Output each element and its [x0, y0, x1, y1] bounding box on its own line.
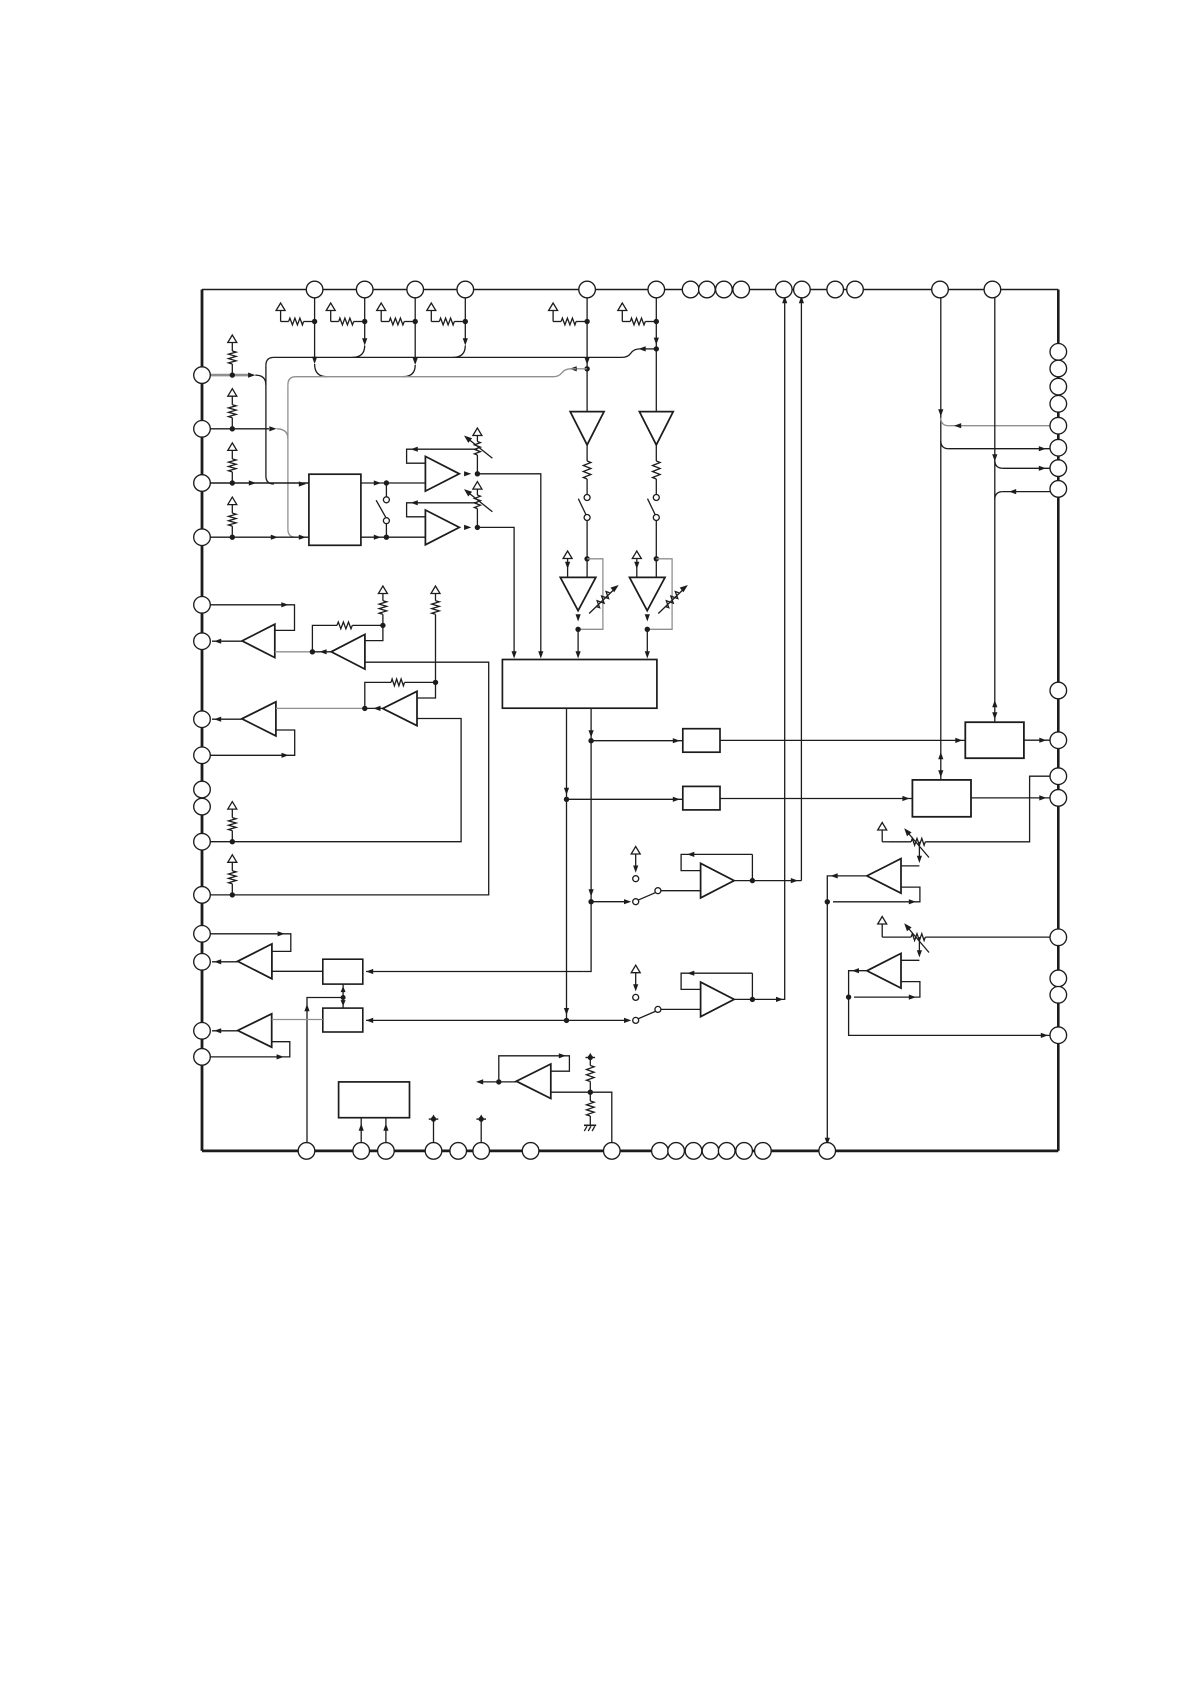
arrow on U14 feedback — [687, 852, 694, 857]
op-amp VCA (down) chain1 — [560, 577, 596, 610]
wire U14 output — [734, 880, 752, 882]
pin L5 — [194, 597, 211, 614]
wire U19 output stub — [365, 707, 383, 709]
arrow on U1 output 1 — [374, 480, 381, 485]
arrow into U8 — [902, 796, 909, 801]
arrow on pin T5 lead — [585, 358, 590, 365]
arrow into selector (from U2) — [538, 651, 543, 658]
op-amp U23 — [516, 1064, 551, 1099]
op-amp U16 — [242, 624, 275, 657]
terminal marker (divider top) — [586, 1057, 596, 1059]
node U14 output — [750, 878, 755, 883]
arrow on T16 vertical (upper) — [992, 454, 997, 461]
IC outline (bottom edge) — [202, 1150, 1058, 1153]
power supply arrow VR3 — [878, 823, 887, 831]
arrow chain1 VCA output — [576, 614, 581, 621]
pin R5 — [1050, 417, 1067, 434]
power supply arrow + resistor R5 at top pin — [549, 303, 558, 311]
pin R2 — [1050, 360, 1067, 377]
black bus elbow down — [266, 357, 274, 365]
pin L7 — [194, 711, 211, 728]
pin L15 — [194, 1023, 211, 1040]
wire pin T6 vertical — [655, 290, 657, 412]
node pin T6 / black bus junction — [654, 346, 659, 351]
wire U17 output — [312, 651, 331, 653]
black bus elbow into block input — [266, 476, 274, 484]
arrow on pin T6 lead — [654, 338, 659, 345]
wire U18 output to pin L7 — [212, 718, 242, 720]
arrow into black bus (pin T4) — [463, 338, 468, 345]
switch U14 mute contact — [633, 876, 639, 882]
wire pin T1 vertical — [314, 290, 316, 363]
box U8 — [912, 780, 971, 817]
node U1 output 2 — [384, 535, 389, 540]
wire U8 output to pin R12 — [971, 797, 1058, 799]
pin T12 — [794, 281, 811, 298]
node U4 output 1 / box U5 tap — [588, 738, 593, 743]
elbow L1 wire into vertical — [255, 375, 266, 385]
pin B11 — [685, 1143, 702, 1160]
pin T16 — [984, 281, 1001, 298]
pin B4 — [425, 1143, 442, 1160]
arrow into U22 (lead2) — [383, 1124, 388, 1131]
wire U22 lead 1 (pin B2) — [360, 1118, 362, 1151]
arrow into U22 (lead1) — [359, 1124, 364, 1131]
block U4 (selector) — [502, 660, 657, 709]
wire to box U5 — [591, 740, 683, 742]
pin R6 — [1050, 439, 1067, 456]
U13 upper input step — [901, 959, 919, 961]
pin B10 — [668, 1143, 685, 1160]
pin B12 — [702, 1143, 719, 1160]
wire chain2 switch to node — [655, 521, 657, 578]
pin B1 — [298, 1143, 315, 1160]
wire U13 output — [849, 971, 1059, 1036]
box U11 — [323, 1008, 363, 1032]
node U4 output 2 / mute switch 2 tap — [564, 1018, 569, 1023]
resistor R13 branch (pin L12) — [228, 855, 237, 863]
wire elbow pin T2 to black bus — [352, 346, 364, 358]
pin T8 — [699, 281, 716, 298]
node L2 wire / resistor junction — [230, 426, 235, 431]
pin B6 — [473, 1143, 490, 1160]
wire U16 output to pin L6 — [212, 640, 242, 642]
arrow up on T16 vertical — [992, 700, 997, 707]
arrow on U4 output 1 (lower) — [589, 889, 594, 896]
arrow into U8 top — [938, 770, 943, 777]
wire pin T2 vertical — [364, 290, 366, 344]
variable resistor VR4 — [878, 917, 887, 925]
wire U23 output — [478, 1081, 516, 1083]
pin R15 — [1050, 987, 1067, 1004]
resistor R17 (divider upper) — [587, 1066, 595, 1082]
VR4 lead into U13 — [918, 937, 920, 954]
arrow into box U11 — [366, 1018, 373, 1023]
resistor R16 branch (pin L11) — [228, 802, 237, 810]
wire U4 output 2 vertical (lower part) — [566, 799, 568, 1020]
wire U7 output to pin R10 — [1024, 739, 1058, 741]
pin R4 — [1050, 396, 1067, 413]
power supply arrow + resistor R1 at top pin — [276, 303, 285, 311]
pin T9 — [716, 281, 733, 298]
wire chain2 VCA output to selector — [646, 629, 648, 652]
arrow L1 wire — [248, 373, 255, 378]
op-amp U3 — [425, 510, 459, 545]
pin R16 — [1050, 1027, 1067, 1044]
wire U17 feedback into input — [365, 625, 383, 640]
branch to pin R7 — [995, 460, 1003, 468]
pin L16 — [194, 1049, 211, 1066]
node chain2 VCA input — [654, 556, 659, 561]
node chain2 VCA output — [645, 627, 650, 632]
box U22 (bias generator) — [339, 1082, 410, 1118]
node on pin lead (top pin 2) — [362, 319, 367, 324]
wire U21 output to pin L15 — [212, 1030, 238, 1032]
op-amp U14 — [701, 863, 735, 898]
variable resistor chain2 — [665, 592, 679, 608]
arrow down into U11 — [341, 1000, 346, 1006]
arrow into pin R10 — [1039, 738, 1046, 743]
node U15 output — [750, 997, 755, 1002]
wire chain2 buffer to resistor — [655, 445, 657, 461]
wire U2 output to selector — [477, 474, 540, 653]
VR2 adjustment arrow — [467, 491, 493, 512]
switch chain2 — [653, 495, 659, 501]
op-amp U15 — [701, 982, 735, 1017]
node U3 output — [475, 525, 480, 530]
arrow into pin T11 — [782, 296, 787, 303]
wire vertical to pin T12 — [800, 290, 802, 881]
branch to pin R6 — [941, 441, 949, 449]
pin R10 — [1050, 732, 1067, 749]
pin T11 — [776, 281, 793, 298]
feedback bracket U23 — [499, 1056, 570, 1082]
wire U19 output to U18 — [276, 707, 365, 709]
arrow into block (input 1) — [299, 481, 306, 486]
pin B15 — [755, 1143, 772, 1160]
gray bracket chain1 — [578, 559, 603, 630]
arrow U14 input — [624, 899, 631, 904]
wire U6 to U8 — [720, 798, 912, 800]
arrow on T15 vertical (upper) — [938, 409, 943, 416]
wire U3 output to selector — [477, 527, 514, 652]
arrow on U14 output — [791, 878, 798, 883]
wire chain1 VCA output to selector — [577, 629, 579, 652]
arrow on U17 output — [319, 649, 326, 654]
black bus vertical drop — [265, 365, 267, 476]
IC outline (right edge) — [1057, 290, 1060, 1151]
pin L10 — [194, 798, 211, 815]
arrow into U7 — [955, 738, 962, 743]
node U10/U11 junction — [341, 995, 346, 1000]
pin L9 — [194, 781, 211, 798]
wire U16 lower input — [275, 651, 313, 653]
pin R7 — [1050, 460, 1067, 477]
op-amp U17 — [331, 634, 365, 669]
wire U15 input — [567, 1019, 630, 1021]
arrow into selector (chain2) — [645, 651, 650, 658]
variable resistor VR1 (U2 gain) — [473, 428, 482, 436]
resistor R7 branch above L1 wire — [228, 335, 237, 343]
node pin T5 / gray bus junction — [584, 366, 589, 371]
op-amp buffer (down) chain2 — [639, 412, 673, 445]
node on pin lead (top pin 5) — [584, 319, 589, 324]
arrow on U15 feedback — [687, 971, 694, 976]
node chain1 VCA input — [584, 556, 589, 561]
IC outline (left edge) — [201, 290, 204, 1151]
block U1 (input matrix) — [309, 474, 361, 545]
wire U15 output run — [752, 290, 784, 1000]
terminal marker pin B6 — [476, 1118, 486, 1120]
wire pin T4 vertical — [464, 290, 466, 344]
arrow into pin R12 — [1039, 795, 1046, 800]
pin T15 — [932, 281, 949, 298]
op-amp U12 — [867, 859, 901, 894]
pin L8 — [194, 747, 211, 764]
node U17 feedback junction — [380, 623, 385, 628]
variable resistor chain1 — [596, 592, 610, 608]
pin R11 — [1050, 768, 1067, 785]
arrow up on T15 vertical — [938, 752, 943, 759]
power supply arrow chain1 VCA — [563, 551, 572, 559]
pin R1 — [1050, 344, 1067, 361]
arrow into box U6 — [673, 797, 680, 802]
resistor R10 branch above L4 wire — [228, 497, 237, 505]
wire chain1 resistor to switch — [586, 479, 588, 495]
resistor R15 + supply (U19 bias) — [431, 586, 440, 594]
pin L13 — [194, 926, 211, 943]
pin T7 — [682, 281, 699, 298]
pin T6 — [648, 281, 665, 298]
pin B3 — [378, 1143, 395, 1160]
node U4 output 1 / mute switch tap — [588, 899, 593, 904]
left pin L4 input wire — [202, 536, 309, 538]
gray bus wire (right end with arrow) — [576, 368, 587, 370]
wire U4 output 1 vertical (upper part) — [590, 708, 592, 741]
U12 lower input step — [833, 887, 920, 902]
elbow L2 wire into vertical — [277, 429, 288, 439]
pin B9 — [652, 1143, 669, 1160]
pin T10 — [733, 281, 750, 298]
arrow into gray bus (pin T3) — [413, 358, 418, 365]
wire U22 lead 2 (pin B3) — [385, 1118, 387, 1151]
wire U12 output — [827, 876, 867, 1151]
arrow on U2 feedback — [411, 447, 418, 452]
power supply arrow + resistor R3 at top pin — [377, 303, 386, 311]
pin T2 — [356, 281, 373, 298]
op-amp U18 — [242, 702, 276, 736]
feedback vertical U14 — [751, 854, 753, 880]
node divider tap — [588, 1090, 593, 1095]
arrow on U3 feedback — [411, 500, 418, 505]
wire pin T3 vertical — [414, 290, 416, 364]
wire U19 lower input (long) — [202, 719, 461, 842]
pin L6 — [194, 633, 211, 650]
switch U15 — [633, 1017, 639, 1023]
branch from pin R8 — [1003, 491, 1059, 493]
gray bus vertical drop — [287, 385, 289, 530]
U13 lower input step — [854, 982, 920, 998]
node U13 lower input / output line — [846, 994, 851, 999]
VR3 lead into U12 — [918, 842, 920, 860]
gray bus elbow down — [288, 377, 296, 385]
feedback vertical U15 — [751, 973, 753, 999]
feedback wire U3 — [407, 503, 478, 517]
arrow on U1 output 2 — [374, 535, 381, 540]
node L1 wire / resistor junction — [230, 372, 235, 377]
node U1 output 1 — [384, 480, 389, 485]
VR3 adjustment arrow — [906, 831, 929, 858]
IC outline (top edge) — [202, 289, 1058, 291]
box U10 — [323, 959, 363, 984]
wire junction to pin B1 — [307, 998, 343, 1151]
pin T13 — [827, 281, 844, 298]
wire between U10 and U11 — [342, 984, 344, 1008]
wire pin L5 to U16 (upper input) — [202, 605, 295, 631]
variable resistor VR3 — [911, 838, 925, 845]
wire chain1 buffer to resistor — [586, 445, 588, 461]
pin B8 — [604, 1143, 621, 1160]
pin B7 — [522, 1143, 539, 1160]
node L11 wire / resistor junction — [230, 839, 235, 844]
box U7 — [965, 722, 1024, 758]
arrow into block (input 2) — [299, 535, 306, 540]
wire U14 output run — [752, 880, 801, 882]
arrow chain2 VCA output — [645, 614, 650, 621]
resistor chain2 series — [653, 461, 661, 479]
wire chain2 resistor to switch — [655, 479, 657, 495]
pin B13 — [718, 1143, 735, 1160]
pin B5 — [450, 1143, 467, 1160]
node U12 lower input / output line — [825, 899, 830, 904]
op-amp U19 — [383, 691, 417, 725]
wire U17 lower input (long) — [202, 662, 489, 895]
pin L11 — [194, 833, 211, 850]
arrow on U4 output 2 — [564, 788, 569, 795]
wire pin T15 vertical — [940, 290, 942, 780]
pin B14 — [736, 1143, 753, 1160]
node on pin lead (top pin 1) — [312, 319, 317, 324]
variable resistor VR2 (U3 gain) — [473, 482, 482, 490]
pin T5 — [579, 281, 596, 298]
pin R8 — [1050, 481, 1067, 498]
node L12 wire / resistor junction — [230, 892, 235, 897]
wire U4 output 1 vertical (middle part) — [590, 741, 592, 902]
wire elbow pin T3 to gray bus — [403, 365, 415, 377]
op-amp U13 — [867, 953, 901, 988]
wire U11 to U21 (upper input) — [272, 1019, 323, 1021]
arrow on U4 output 2 (lower) — [564, 1008, 569, 1015]
VR1 adjustment arrow — [467, 438, 493, 459]
wire pin T16 vertical — [994, 290, 996, 723]
black bus wire (horizontal run) — [274, 356, 620, 358]
feedback bracket U15 — [681, 973, 752, 989]
arrow on U23 output (floating) — [476, 1079, 483, 1084]
gray bus elbow into block input — [288, 529, 296, 537]
resistor R8 branch above L2 wire — [228, 389, 237, 397]
arrow up into U10 — [341, 986, 346, 992]
pin T3 — [407, 281, 424, 298]
node on pin lead (top pin 4) — [463, 319, 468, 324]
pin L2 — [194, 421, 211, 438]
power supply arrow + resistor R2 at top pin — [326, 303, 335, 311]
arrow U2 output — [464, 471, 471, 476]
box U6 — [683, 786, 720, 810]
wire U23 input line — [551, 1092, 612, 1151]
power supply arrow U15 — [631, 965, 640, 973]
feedback bracket U14 — [681, 854, 752, 870]
pin R9 — [1050, 682, 1067, 699]
op-amp VCA (down) chain2 — [630, 577, 666, 610]
pin L3 — [194, 475, 211, 492]
arrow U3 output — [464, 525, 471, 530]
wire U14 switch to amp — [661, 890, 701, 892]
pin R14 — [1050, 970, 1067, 987]
pin T14 — [847, 281, 864, 298]
switch SW1 between U1 outputs — [385, 483, 387, 497]
arrow into pin B16 — [825, 1138, 830, 1145]
wire pin L16 to U21 (lower input) — [202, 1042, 290, 1057]
arrow into pin R16 — [1041, 1033, 1048, 1038]
wire U15 output — [734, 998, 752, 1000]
wire U15 switch to amp — [661, 1008, 701, 1010]
pin L12 — [194, 887, 211, 904]
power supply arrow + resistor R6 at top pin — [618, 303, 627, 311]
pin L1 — [194, 367, 211, 384]
wire to box U11 — [366, 1019, 567, 1021]
arrow up on pin B1 wire — [304, 1004, 309, 1011]
arrow into black bus (pin T2) — [362, 338, 367, 345]
resistor R9 branch above L3 wire — [228, 443, 237, 451]
op-amp U2 — [425, 456, 459, 491]
switch chain1 — [584, 495, 590, 501]
arrow into box U5 — [673, 738, 680, 743]
switch U14 — [633, 899, 639, 905]
feedback resistor R14 — [365, 682, 391, 708]
wire to box U6 — [567, 798, 683, 800]
U12 upper input step — [901, 865, 919, 867]
node L3 wire / resistor junction — [230, 480, 235, 485]
node U4 output 2 / box U6 tap — [564, 797, 569, 802]
arrow on U12 lower input — [909, 899, 916, 904]
feedback wire U2 — [407, 449, 478, 463]
op-amp U21 — [238, 1014, 272, 1047]
arrow into selector (chain1) — [576, 651, 581, 658]
resistor R18 (divider lower) — [589, 1092, 591, 1101]
wire U1 output 1 — [361, 482, 426, 484]
wire pin L8 to U18 (lower input) — [202, 730, 295, 755]
wire U4 output 2 vertical (upper part) — [566, 708, 568, 799]
wire U5 to U7 — [720, 739, 965, 741]
left pin L3 input wire — [202, 482, 309, 484]
wire elbow pin T1 to gray bus — [315, 364, 327, 377]
wire U20 output to pin L14 — [212, 961, 238, 963]
wire to box U10 (left run) — [366, 971, 583, 973]
power supply arrow chain2 VCA — [632, 551, 641, 559]
gray branch to pin R5 — [941, 418, 949, 426]
wire pin L13 to U20 (upper input) — [202, 934, 291, 952]
gray bus wire (horizontal run) — [296, 376, 551, 378]
wire U4 output 1 vertical (lower part) — [583, 902, 591, 972]
left pin L2 input wire — [202, 428, 269, 430]
node chain1 VCA output — [575, 627, 580, 632]
wire pin R11 elbow — [925, 776, 1058, 842]
wire U19 feedback into input — [417, 682, 436, 698]
node U2 output — [475, 471, 480, 476]
pin R3 — [1050, 378, 1067, 395]
node on pin lead (top pin 6) — [654, 319, 659, 324]
wire U1 output 2 — [361, 536, 426, 538]
